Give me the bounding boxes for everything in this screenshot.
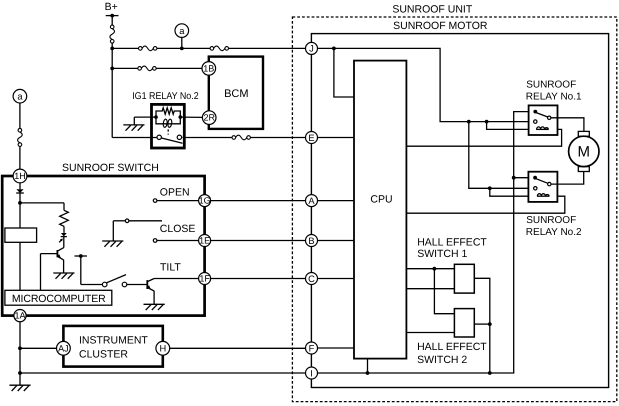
svg-text:INSTRUMENT: INSTRUMENT	[79, 335, 148, 347]
svg-text:BCM: BCM	[224, 88, 248, 100]
svg-text:1A: 1A	[14, 311, 25, 321]
svg-text:CLOSE: CLOSE	[160, 223, 196, 235]
svg-text:SWITCH 1: SWITCH 1	[417, 248, 467, 260]
svg-text:M: M	[578, 144, 591, 161]
svg-text:HALL EFFECT: HALL EFFECT	[417, 341, 487, 353]
svg-text:SWITCH 2: SWITCH 2	[417, 354, 467, 366]
svg-text:2R: 2R	[203, 113, 215, 123]
svg-text:a: a	[17, 92, 23, 102]
svg-text:CPU: CPU	[370, 193, 392, 205]
svg-text:B: B	[308, 236, 314, 246]
svg-text:RELAY No.1: RELAY No.1	[526, 92, 582, 103]
svg-text:F: F	[309, 343, 315, 353]
svg-text:SUNROOF: SUNROOF	[526, 80, 576, 91]
svg-text:A: A	[308, 196, 315, 206]
svg-text:E: E	[308, 133, 314, 143]
svg-text:1E: 1E	[199, 236, 210, 246]
svg-text:1F: 1F	[199, 274, 210, 284]
svg-text:1B: 1B	[203, 63, 214, 73]
svg-text:1G: 1G	[199, 196, 211, 206]
svg-text:SUNROOF: SUNROOF	[526, 215, 576, 226]
svg-text:B+: B+	[105, 1, 118, 13]
svg-text:IG1 RELAY No.2: IG1 RELAY No.2	[132, 91, 199, 102]
svg-text:AJ: AJ	[58, 343, 69, 353]
svg-text:MICROCOMPUTER: MICROCOMPUTER	[12, 293, 106, 305]
svg-text:RELAY No.2: RELAY No.2	[526, 227, 582, 238]
svg-text:1H: 1H	[14, 171, 26, 181]
svg-text:SUNROOF SWITCH: SUNROOF SWITCH	[62, 162, 159, 174]
svg-text:SUNROOF MOTOR: SUNROOF MOTOR	[393, 20, 488, 32]
svg-text:I: I	[310, 368, 313, 378]
svg-text:SUNROOF UNIT: SUNROOF UNIT	[392, 3, 473, 15]
svg-text:TILT: TILT	[160, 261, 181, 273]
svg-text:J: J	[309, 44, 314, 54]
svg-text:OPEN: OPEN	[160, 186, 190, 198]
svg-text:H: H	[159, 344, 166, 354]
svg-text:a: a	[179, 26, 185, 36]
svg-text:CLUSTER: CLUSTER	[79, 348, 128, 360]
svg-text:HALL EFFECT: HALL EFFECT	[417, 237, 487, 249]
svg-text:C: C	[308, 274, 315, 284]
